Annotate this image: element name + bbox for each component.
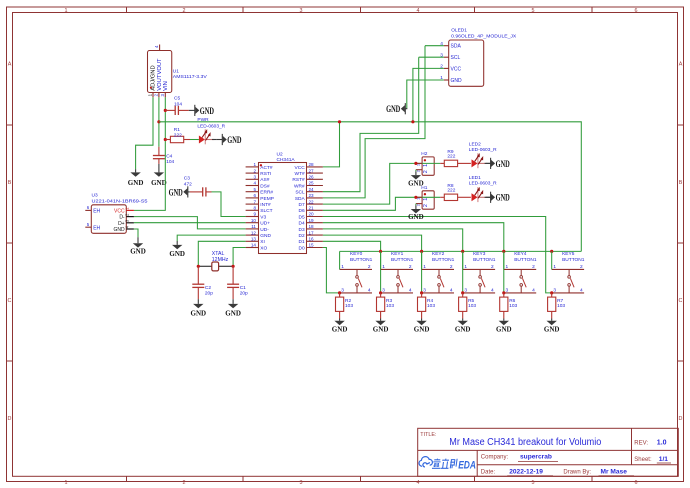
svg-text:6: 6 (87, 205, 90, 210)
svg-text:KEY4: KEY4 (514, 251, 527, 257)
svg-text:R5: R5 (468, 298, 474, 304)
svg-text:3: 3 (553, 288, 556, 294)
svg-text:23: 23 (309, 193, 315, 198)
svg-text:18: 18 (309, 224, 315, 229)
svg-text:11: 11 (251, 224, 256, 229)
wire U2 SCL to OLED SCL (323, 57, 419, 192)
svg-text:D1: D1 (299, 239, 305, 245)
junction OLED VCC rail (411, 120, 414, 123)
ground GND below H2 (408, 171, 424, 187)
wire U2 D5 to KEY5 (323, 217, 552, 293)
junction KEY2 pin3 (420, 291, 423, 294)
junction XTAL left (197, 265, 200, 268)
svg-text:2: 2 (423, 204, 429, 207)
ground flag GND right of C5 (189, 105, 214, 116)
svg-text:H2: H2 (421, 151, 427, 157)
resistor R3 103 (377, 293, 395, 319)
junction H1 pin1 (414, 196, 417, 199)
wire rail to KEY5 pin1 (551, 251, 553, 269)
svg-text:VCC: VCC (451, 66, 462, 72)
svg-text:2: 2 (153, 93, 158, 96)
svg-text:27: 27 (309, 168, 315, 173)
wire LED2 cathode to GND flag (486, 162, 490, 164)
svg-text:26: 26 (309, 175, 315, 180)
svg-text:2: 2 (409, 264, 412, 270)
svg-text:H1: H1 (421, 185, 427, 191)
H1 pin 2 (416, 203, 430, 207)
wire PWR rail 3.3V (159, 122, 581, 252)
svg-text:UD-: UD- (260, 227, 269, 233)
wire U2 XI to crystal (198, 241, 245, 266)
svg-text:3: 3 (464, 288, 467, 294)
capacitor C5 (165, 96, 189, 115)
svg-text:U221-041N-1BR69-S5: U221-041N-1BR69-S5 (92, 198, 148, 204)
svg-text:REV:: REV: (634, 440, 648, 446)
svg-text:U1: U1 (173, 69, 179, 75)
svg-text:103: 103 (345, 303, 353, 309)
ground flag GND right of LED PWR (216, 134, 241, 145)
junction rail KEY1 (379, 250, 382, 253)
svg-text:4: 4 (491, 288, 494, 294)
U2 pin 22 D7 (299, 199, 323, 208)
svg-text:1: 1 (423, 198, 429, 201)
svg-text:LED-0603_R: LED-0603_R (469, 181, 497, 187)
ground GND below R4 (414, 319, 430, 334)
svg-text:GND: GND (169, 249, 185, 258)
resistor R7 103 (548, 293, 566, 319)
svg-text:6: 6 (635, 8, 638, 14)
svg-text:103: 103 (386, 303, 394, 309)
ground GND below C4 (151, 164, 167, 187)
svg-text:3: 3 (505, 288, 508, 294)
svg-text:GND: GND (113, 227, 125, 233)
ground flag GND right of LED1 (485, 192, 510, 203)
OLED1 pin 3 SCL (440, 52, 460, 61)
svg-text:R7: R7 (557, 298, 563, 304)
U2 pin 24 SCL (295, 187, 323, 196)
svg-text:3: 3 (341, 288, 344, 294)
svg-text:GND: GND (496, 159, 510, 169)
U2 pin 26 RST# (292, 175, 322, 184)
H1 label (421, 185, 427, 191)
wire U2 XO to crystal (233, 248, 246, 267)
svg-text:SDA: SDA (295, 196, 306, 202)
ground GND below R2 (332, 319, 348, 334)
U2 pin 17 D2 (299, 230, 323, 239)
junction KEY3 pin3 (461, 291, 464, 294)
svg-text:D7: D7 (299, 202, 305, 208)
resistor R6 103 (500, 293, 518, 319)
svg-text:R4: R4 (427, 298, 433, 304)
ground GND below H1 (408, 205, 424, 221)
svg-text:C2: C2 (205, 285, 211, 291)
svg-text:D: D (679, 416, 683, 422)
wire rail to KEY0 pin1 (339, 251, 341, 269)
svg-text:13: 13 (251, 237, 257, 242)
svg-text:12MHz: 12MHz (212, 257, 229, 263)
key switch KEY1 BUTTON1 (381, 251, 414, 293)
svg-text:4: 4 (417, 480, 420, 486)
svg-text:AMS1117-3.3V: AMS1117-3.3V (173, 74, 208, 80)
svg-text:VOUT: VOUT (157, 74, 163, 91)
wire OLED SDA (425, 45, 444, 47)
svg-text:KEY2: KEY2 (432, 251, 445, 257)
svg-text:Sheet:: Sheet: (634, 457, 652, 463)
svg-text:D: D (8, 416, 12, 422)
svg-text:BUTTON1: BUTTON1 (473, 257, 496, 263)
wire U2 D1 to KEY1 (323, 241, 381, 293)
svg-text:2: 2 (183, 8, 186, 14)
U2 pin 8 SLCT (246, 206, 273, 215)
U2 pin 11 UD- (246, 224, 270, 233)
U3 pin 4 GND (113, 225, 133, 233)
wire rail to KEY2 pin1 (421, 251, 423, 269)
wire rail to KEY4 pin1 (503, 251, 505, 269)
svg-text:0.96OLED_4P_MODULE_JX: 0.96OLED_4P_MODULE_JX (451, 33, 517, 39)
svg-text:C3: C3 (184, 176, 190, 182)
svg-text:XI: XI (260, 239, 265, 245)
svg-text:1/1: 1/1 (659, 456, 668, 463)
ground GND below R3 (373, 319, 389, 334)
svg-text:21: 21 (309, 206, 315, 211)
U2 pin 12 GND (246, 230, 272, 239)
company cell (481, 454, 558, 462)
svg-text:EH: EH (93, 225, 100, 231)
svg-text:A: A (679, 62, 683, 68)
svg-text:KEY3: KEY3 (473, 251, 486, 257)
svg-text:5: 5 (87, 222, 90, 227)
svg-text:20: 20 (309, 212, 315, 217)
key switch KEY3 BUTTON1 (463, 251, 496, 293)
svg-text:6: 6 (253, 193, 256, 198)
junction XTAL right (232, 265, 235, 268)
LED LED1 LED-0603_R (469, 175, 497, 202)
svg-text:1: 1 (423, 264, 426, 270)
svg-text:WT#: WT# (295, 171, 305, 177)
wire LED1 cathode to GND flag (486, 196, 490, 198)
svg-text:SLCT: SLCT (260, 208, 272, 214)
svg-text:BUTTON1: BUTTON1 (514, 257, 537, 263)
U2 pin 6 PEMP (246, 193, 274, 202)
date cell (481, 468, 634, 475)
svg-text:BUTTON1: BUTTON1 (562, 257, 585, 263)
svg-text:GND: GND (332, 325, 348, 334)
svg-text:GND: GND (455, 325, 471, 334)
wire H1 pin2 to GND (415, 204, 417, 206)
U2 pin 9 V3 (246, 212, 267, 221)
svg-text:20p: 20p (240, 291, 248, 297)
crystal XTAL 12MHz (198, 251, 233, 271)
sheet cell (634, 456, 671, 463)
U2 pin 16 D1 (299, 237, 323, 246)
svg-text:GND: GND (200, 106, 214, 116)
H2 pin 1 (416, 163, 430, 167)
svg-text:1: 1 (382, 264, 385, 270)
svg-text:BUTTON1: BUTTON1 (391, 257, 414, 263)
svg-text:1: 1 (341, 264, 344, 270)
svg-text:BUTTON1: BUTTON1 (350, 257, 373, 263)
svg-text:Company:: Company: (481, 455, 509, 461)
OLED1 box (449, 40, 484, 86)
svg-text:14: 14 (251, 243, 257, 248)
capacitor C2 20p (192, 266, 213, 299)
svg-text:222: 222 (447, 188, 455, 194)
svg-text:RSTI: RSTI (260, 171, 271, 177)
svg-text:EH: EH (93, 209, 100, 215)
key switch KEY5 BUTTON1 (552, 251, 585, 293)
U2 labels (277, 152, 296, 164)
svg-text:LED-0603_R: LED-0603_R (197, 124, 225, 130)
svg-text:PWR: PWR (197, 117, 209, 123)
svg-text:103: 103 (509, 303, 517, 309)
svg-text:1: 1 (65, 480, 68, 486)
U2 pin 25 WR# (294, 181, 323, 190)
svg-text:5: 5 (532, 480, 535, 486)
svg-text:D2: D2 (299, 233, 305, 239)
header H1 box (422, 191, 434, 209)
svg-text:15: 15 (309, 243, 315, 248)
svg-text:104: 104 (166, 159, 174, 165)
U2 pin 19 D4 (299, 218, 323, 227)
U1 labels (173, 69, 208, 81)
wire rail to KEY3 pin1 (462, 251, 464, 269)
svg-text:9: 9 (253, 212, 256, 217)
wire U2 D2 to KEY2 (323, 235, 422, 293)
wire U1 pin3 VIN down to USB VCC (134, 97, 165, 210)
svg-text:6: 6 (635, 480, 638, 486)
svg-text:4: 4 (154, 45, 159, 48)
title block dividers (418, 428, 679, 476)
svg-text:D5: D5 (299, 214, 305, 220)
svg-text:16: 16 (309, 237, 315, 242)
wire USB GND down (134, 229, 138, 237)
junction KEY1 pin3 (379, 291, 382, 294)
svg-text:Mr Mase: Mr Mase (601, 468, 628, 475)
junction KEY4 pin3 (502, 291, 505, 294)
U2 pin 7 INT# (246, 199, 271, 208)
svg-text:SCL: SCL (451, 55, 461, 61)
svg-text:103: 103 (427, 303, 435, 309)
svg-text:C: C (679, 298, 683, 304)
svg-text:17: 17 (309, 230, 315, 235)
junction R1 tap (164, 138, 167, 141)
junction H2 pin1 (414, 162, 417, 165)
svg-text:D3: D3 (299, 227, 305, 233)
U1 pin 2 VOUT (153, 74, 162, 97)
ground GND below R5 (455, 319, 471, 334)
junction KEY5 pin3 (550, 291, 553, 294)
wire USB D- to U2 UD- (134, 217, 246, 229)
svg-text:DS#: DS# (260, 183, 270, 189)
svg-text:GND: GND (227, 135, 241, 145)
junction rail KEY3 (461, 250, 464, 253)
wire rail to KEY1 pin1 (380, 251, 382, 269)
ground flag GND left of OLED (386, 103, 407, 114)
svg-text:2: 2 (450, 264, 453, 270)
OLED1 labels (451, 28, 517, 40)
U2 pin 27 WT# (295, 168, 323, 177)
junction PWR-VOUT (157, 120, 160, 123)
svg-text:103: 103 (557, 303, 565, 309)
wire USB D+ to U2 UD+ (134, 222, 246, 224)
svg-text:B: B (8, 180, 12, 186)
svg-text:4: 4 (532, 288, 535, 294)
OLED1 pin 2 VCC (440, 64, 461, 73)
svg-text:GND: GND (225, 308, 241, 317)
svg-text:SDA: SDA (451, 44, 462, 50)
svg-text:UD+: UD+ (260, 221, 270, 227)
resistor R2 103 (336, 293, 354, 319)
wire C3 to U2 V3 (212, 192, 246, 217)
svg-text:7: 7 (253, 199, 256, 204)
svg-text:GND: GND (496, 325, 512, 334)
U3 pin 1 VCC (114, 207, 134, 215)
regulator U1 box (148, 51, 172, 93)
junction KEY0 pin3 (338, 291, 341, 294)
svg-text:8: 8 (253, 206, 256, 211)
svg-text:D4: D4 (299, 221, 305, 227)
svg-text:SCL: SCL (295, 190, 305, 196)
wire U2 VCC to PWR rail (323, 122, 340, 167)
svg-text:D+: D+ (118, 221, 125, 227)
svg-text:Date:: Date: (481, 469, 496, 475)
svg-text:U2: U2 (277, 152, 283, 158)
svg-text:KEY0: KEY0 (350, 251, 363, 257)
junction rail KEY2 (420, 250, 423, 253)
U2 pin 10 UD+ (246, 218, 271, 227)
wire U2 D3 to KEY3 (323, 229, 463, 293)
U2 pin 20 D5 (299, 212, 323, 221)
svg-text:VIN: VIN (163, 81, 169, 91)
svg-text:TITLE:: TITLE: (420, 432, 436, 438)
svg-text:GND: GND (169, 187, 183, 197)
svg-text:222: 222 (174, 133, 182, 139)
svg-text:5: 5 (532, 8, 535, 14)
svg-text:1: 1 (553, 264, 556, 270)
svg-text:1: 1 (253, 162, 256, 167)
svg-text:4: 4 (450, 288, 453, 294)
svg-text:20p: 20p (205, 291, 213, 297)
svg-text:Drawn By:: Drawn By: (563, 469, 591, 475)
svg-text:2: 2 (532, 264, 535, 270)
resistor R5 103 (459, 293, 477, 319)
svg-text:ERR#: ERR# (260, 190, 273, 196)
rev cell (634, 440, 666, 447)
resistor R8 222 (440, 183, 471, 200)
svg-text:R3: R3 (386, 298, 392, 304)
svg-text:CH341A: CH341A (277, 157, 296, 163)
svg-text:V3: V3 (260, 214, 266, 220)
svg-text:D-: D- (119, 215, 125, 221)
U2 pin 13 XI (246, 237, 265, 246)
svg-text:PEMP: PEMP (260, 196, 274, 202)
wire key rail from PWR (340, 250, 582, 252)
wire OLED VCC to PWR rail (413, 68, 444, 121)
LED LED2 LED-0603_R (469, 141, 497, 168)
svg-text:Mr Mase CH341 breakout for Vol: Mr Mase CH341 breakout for Volumio (449, 437, 601, 448)
svg-text:28: 28 (309, 162, 315, 167)
wire R1 to LED PWR (190, 139, 199, 141)
svg-text:GND: GND (260, 233, 271, 239)
wire through H1 pin1 (416, 196, 440, 198)
svg-text:4: 4 (253, 181, 256, 186)
svg-text:C4: C4 (166, 154, 172, 160)
wire through H2 pin1 (416, 162, 440, 164)
svg-text:4: 4 (409, 288, 412, 294)
svg-text:1: 1 (423, 164, 429, 167)
U2 pin 1 ACT# (246, 162, 273, 171)
svg-text:LED1: LED1 (469, 175, 481, 181)
H2 label (421, 151, 427, 157)
svg-text:ACT#: ACT# (260, 165, 273, 171)
wire U2 D6 to H1 (323, 197, 416, 210)
svg-text:AS#: AS# (260, 177, 269, 183)
wire U2 D0 to KEY0 (323, 248, 340, 293)
svg-text:104: 104 (174, 101, 182, 107)
junction VCC rail (338, 120, 341, 123)
U2 pin 3 AS# (246, 175, 270, 184)
svg-text:25: 25 (309, 181, 315, 186)
svg-text:GND: GND (130, 246, 146, 255)
svg-text:LED2: LED2 (469, 141, 481, 147)
U2 pin 14 XO (246, 243, 268, 252)
svg-text:VCC: VCC (114, 208, 125, 214)
H2 pin 2 (416, 169, 430, 173)
key switch KEY2 BUTTON1 (422, 251, 455, 293)
svg-text:103: 103 (468, 303, 476, 309)
capacitor C1 20p (227, 266, 248, 299)
svg-text:GND: GND (191, 308, 207, 317)
svg-text:A: A (8, 62, 12, 68)
svg-text:GND: GND (451, 78, 463, 84)
svg-text:4: 4 (580, 288, 583, 294)
wire U2 D7 to H2 (323, 163, 416, 204)
svg-text:supercrab: supercrab (520, 454, 552, 461)
svg-text:C5: C5 (174, 96, 180, 102)
svg-text:D0: D0 (299, 245, 305, 251)
U1 pin 3 VIN (160, 81, 169, 97)
capacitor C3 472 (184, 176, 212, 197)
wire U2 SDA to OLED SDA (323, 46, 425, 198)
svg-text:2: 2 (253, 168, 256, 173)
svg-text:BUTTON1: BUTTON1 (432, 257, 455, 263)
svg-text:GND: GND (496, 193, 510, 203)
svg-text:GND: GND (408, 212, 424, 221)
USB connector U3 box (91, 205, 126, 234)
svg-text:VCC: VCC (295, 165, 306, 171)
wire OLED GND (407, 80, 444, 109)
U1 pin 4 VOUT top (154, 45, 163, 75)
U2 pin 5 ERR# (246, 187, 274, 196)
svg-text:R1: R1 (174, 127, 180, 133)
H1 pin 1 (416, 197, 430, 201)
svg-text:GND: GND (128, 178, 144, 187)
svg-text:1.0: 1.0 (657, 440, 667, 447)
svg-text:KEY5: KEY5 (562, 251, 575, 257)
svg-text:GND: GND (151, 178, 167, 187)
wire U1 pin2 VOUT down (158, 97, 160, 146)
resistor R1 222 (165, 127, 190, 143)
svg-text:2: 2 (368, 264, 371, 270)
svg-text:3: 3 (300, 480, 303, 486)
svg-text:LED-0603_R: LED-0603_R (469, 147, 497, 153)
U2 pin 2 RSTI (246, 168, 272, 177)
IC U2 CH341A box (259, 163, 307, 254)
svg-text:2: 2 (423, 170, 429, 173)
resistor R9 222 (440, 149, 471, 166)
U2 pin 4 DS# (246, 181, 270, 190)
svg-text:D6: D6 (299, 208, 305, 214)
